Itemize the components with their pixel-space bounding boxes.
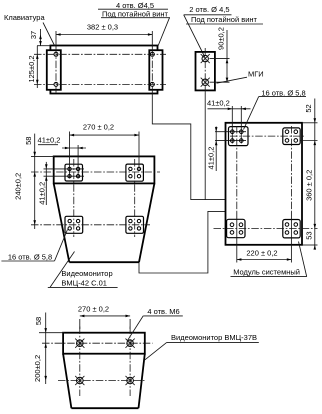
svg-text:Видеомонитор ВМЦ-37В: Видеомонитор ВМЦ-37В	[171, 333, 257, 342]
svg-text:4 отв. М6: 4 отв. М6	[147, 307, 179, 316]
svg-text:Видеомонитор: Видеомонитор	[61, 269, 112, 278]
svg-text:52: 52	[304, 104, 313, 112]
svg-text:41±0,2: 41±0,2	[38, 136, 61, 145]
svg-text:58: 58	[24, 137, 33, 145]
svg-text:МГИ: МГИ	[248, 70, 264, 79]
svg-text:41±0,2: 41±0,2	[206, 147, 215, 170]
svg-text:37: 37	[29, 31, 38, 39]
svg-text:41±0,2: 41±0,2	[38, 182, 47, 205]
svg-text:220 ± 0,2: 220 ± 0,2	[246, 249, 277, 258]
svg-text:90±0,2: 90±0,2	[217, 27, 226, 50]
svg-text:Модуль системный: Модуль системный	[233, 267, 300, 276]
svg-text:382 ± 0,3: 382 ± 0,3	[87, 22, 118, 31]
svg-text:ВМЦ-42 С.01: ВМЦ-42 С.01	[61, 278, 107, 287]
svg-text:200±0,2: 200±0,2	[33, 355, 42, 382]
svg-text:240±0,2: 240±0,2	[13, 173, 22, 200]
svg-text:41±0,2: 41±0,2	[207, 98, 230, 107]
svg-text:Под потайной винт: Под потайной винт	[102, 10, 169, 19]
svg-text:270 ± 0,2: 270 ± 0,2	[83, 123, 114, 132]
svg-text:2 отв. Ø 4,5: 2 отв. Ø 4,5	[189, 5, 229, 14]
svg-text:270 ± 0,2: 270 ± 0,2	[78, 304, 109, 313]
svg-text:125±0,2: 125±0,2	[27, 55, 36, 82]
svg-text:16 отв. Ø 5,8: 16 отв. Ø 5,8	[8, 252, 52, 261]
svg-text:58: 58	[34, 317, 43, 325]
svg-text:53: 53	[305, 231, 314, 239]
svg-text:Под потайной винт: Под потайной винт	[191, 15, 258, 24]
svg-text:360 ± 0,2: 360 ± 0,2	[305, 170, 314, 201]
svg-text:Клавиатура: Клавиатура	[4, 13, 45, 22]
